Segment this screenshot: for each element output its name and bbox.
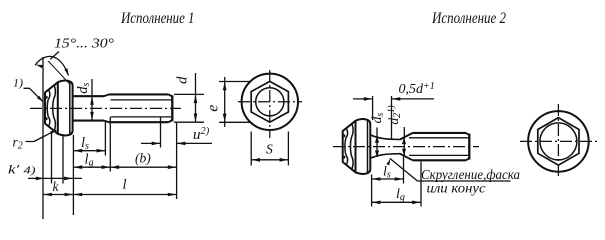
extension line bolt end x=176.6 (176, 123, 178, 199)
angle arc arrowhead right (64, 68, 68, 75)
dimension l line (73, 194, 176, 196)
bolt end chamfer top (169, 94, 173, 96)
ds2 arrow down (375, 151, 379, 158)
end view 1: horizontal centerline (238, 101, 302, 103)
thread runout bottom (104, 121, 109, 123)
thread root top line (111, 99, 172, 101)
l arrow right (168, 193, 177, 197)
flange M2 washer-face line (367, 121, 369, 173)
d arrow up (194, 95, 198, 104)
leader r2 arrowhead (50, 130, 57, 134)
end view 2: vertical centerline (557, 104, 559, 179)
svg-text:Исполнение 1: Исполнение 1 (120, 9, 194, 27)
(b) arrow right (168, 165, 177, 169)
lg arrow left (74, 165, 83, 169)
head M2 chamfer curl top (343, 135, 345, 137)
svg-text:Исполнение 2: Исполнение 2 (431, 9, 506, 27)
end view 1: chamfer circle (256, 88, 284, 116)
svg-text:1): 1) (13, 76, 23, 90)
extension line facet x=51.5 (51, 132, 53, 184)
ls2 arrow right (395, 177, 404, 181)
end view 2: hexagon (538, 118, 579, 166)
svg-text:15°... 30°: 15°... 30° (54, 37, 114, 52)
e extension line bottom (219, 121, 250, 123)
l arrow left (74, 193, 83, 197)
bolt end face (171, 95, 173, 121)
S arrow right (280, 158, 289, 162)
thread runout top (chamfer to crest) (104, 94, 109, 96)
end view 2: horizontal centerline (520, 140, 597, 142)
u arrow right (177, 142, 186, 146)
thread crest top line (109, 93, 169, 95)
note leader arrowhead (386, 159, 390, 166)
svg-text:l: l (123, 177, 127, 193)
svg-text:или конус: или конус (427, 181, 486, 196)
ds2 arrow up (375, 136, 379, 143)
extension line k-prime x=63 (62, 136, 64, 184)
dimension S line (251, 159, 288, 161)
cone top to thread (400, 133, 413, 140)
dimension ds2 line (376, 128, 378, 158)
extension line head left face (k) (42, 96, 44, 219)
lg arrow right (102, 165, 111, 169)
angle dimension arc (36, 56, 69, 75)
head facet curve 2 (53, 85, 56, 131)
bolt end chamfer bottom (169, 120, 173, 122)
S extension line left (250, 132, 252, 166)
extension line ls end x=105.4 (104, 121, 106, 156)
bolt M2 end chamfer top (466, 133, 469, 135)
cone bottom to thread (400, 154, 413, 161)
k-prime arrow at 45 (36, 177, 45, 181)
bolt M2 end face (468, 134, 470, 160)
extension line u left x=160.5 (160, 118, 162, 148)
thread M2 crest bottom (413, 159, 466, 161)
0,5d arrow right (392, 97, 401, 101)
e arrow up (223, 82, 227, 91)
extension line bearing face x=73.4 (72, 135, 74, 215)
extension line ls2 end x=403.5 (403, 157, 405, 184)
svg-text:k′ 4): k′ 4) (8, 162, 36, 177)
centerline axis M1 (30, 107, 181, 109)
0,5d extension line left (bearing face up) (372, 96, 374, 120)
dimension u line left tail (141, 142, 161, 144)
head M2 facet curve 1 (345, 128, 348, 165)
k arrow left (43, 193, 52, 197)
note leader line (390, 159, 510, 181)
ls arrow right (97, 149, 106, 153)
end view 2: chamfer circle (540, 123, 577, 160)
k arrow right (65, 193, 74, 197)
waist top curve (370, 135, 400, 140)
bolt M1 flange outline (58, 81, 73, 136)
extension line thread start x=110.3 (109, 117, 111, 172)
thread root bottom line (111, 116, 172, 118)
end view 1: vertical centerline (269, 70, 271, 138)
dimension ds line (91, 79, 93, 120)
0,5d extension line right (391, 96, 393, 139)
svg-text:S: S (266, 142, 273, 157)
d extension line bottom (174, 121, 204, 123)
lg2 arrow left (372, 201, 381, 205)
0,5d arrow left (364, 97, 373, 101)
end view 2: flange circle (528, 111, 589, 172)
centerline axis M2 (333, 146, 479, 148)
dimension d line (195, 73, 197, 122)
d arrow down (194, 114, 198, 123)
d2 arrow down (402, 149, 406, 156)
S extension line right (287, 132, 289, 166)
angle arc arrowhead left (36, 65, 43, 69)
dimension ls line (73, 150, 105, 152)
(b) arrow left (111, 165, 120, 169)
bolt M2 flange outline (356, 119, 371, 174)
chamfer edge extension line (48, 61, 70, 84)
dimension (b) line (110, 166, 176, 168)
0,5d dim right tail (392, 98, 435, 100)
ds arrow down (90, 112, 94, 121)
thread M2 root top (409, 137, 469, 139)
dimension lg2 line (372, 201, 421, 203)
S arrow left (252, 158, 261, 162)
dimension e line (224, 77, 226, 127)
head M2 chamfer curl bottom (343, 156, 345, 158)
extension line bearing M2 x=371.6 (371, 175, 373, 207)
e extension line top (219, 81, 250, 83)
head M2 facet curve 2 (350, 124, 353, 170)
ls arrow left (74, 149, 83, 153)
leader r2 line (26, 130, 56, 141)
flange washer-face line (69, 82, 71, 134)
end view 1: flange circle (242, 74, 298, 130)
dimension u line right tail (177, 142, 212, 144)
extension line lg2 end x=421 (420, 162, 422, 207)
e arrow down (223, 114, 227, 123)
d extension line top (174, 93, 204, 95)
waist bottom curve (370, 154, 400, 159)
bolt M1 shank bottom line (73, 120, 104, 122)
u arrow left (152, 142, 161, 146)
ds arrow up (90, 96, 94, 105)
thread M2 crest top (413, 132, 466, 134)
k-prime arrow at 72 (64, 177, 73, 181)
dimension d2 line (403, 127, 405, 156)
thread crest bottom line (109, 121, 169, 123)
lg2 arrow right (412, 201, 421, 205)
bolt M1 head outline (hex silhouette with chamfer slants) (45, 82, 58, 134)
head chamfer curl top (45, 96, 47, 98)
ls2 arrow left (372, 177, 381, 181)
bolt M2 end chamfer bottom (466, 158, 469, 160)
thread M2 root bottom (409, 154, 469, 156)
angle leader from text (50, 52, 59, 60)
leader 1) arrowhead (37, 96, 43, 102)
dimension ls2 line (372, 178, 404, 180)
end view 1: hexagon (251, 81, 288, 122)
svg-text:d: d (175, 76, 191, 84)
svg-text:e: e (205, 105, 222, 112)
dimension lg line (73, 166, 110, 168)
head chamfer curl bottom (45, 118, 47, 120)
bolt M1 shank top line (73, 95, 104, 97)
0,5d dim left tail (353, 98, 373, 100)
head-top extension line (vertical above head) (42, 57, 44, 96)
d2 arrow up (402, 138, 406, 145)
k-prime leader line (28, 177, 82, 179)
leader 1) line (24, 88, 43, 101)
svg-text:k: k (53, 179, 60, 194)
svg-text:(b): (b) (135, 151, 151, 166)
head facet curve 1 (47, 90, 50, 127)
bolt M2 head outline (hex silhouette with chamfer slants) (343, 121, 356, 173)
dimension k line (43, 194, 73, 196)
